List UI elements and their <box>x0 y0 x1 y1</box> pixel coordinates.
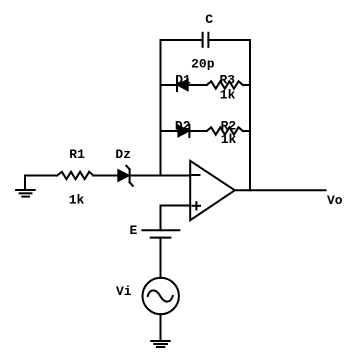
svg-text:1k: 1k <box>69 192 85 207</box>
wire top row left of capacitor <box>161 39 203 41</box>
diode D1 <box>175 72 191 91</box>
ground (bottom, under Vi) <box>151 341 170 347</box>
diode D2 <box>175 118 191 137</box>
battery E <box>129 223 179 238</box>
wire R2 to right vertical <box>243 130 250 132</box>
wire plus input down to battery <box>160 206 162 231</box>
svg-text:E: E <box>129 223 137 238</box>
ground (left, input ground) <box>16 176 35 197</box>
wire Dz to op-amp inverting input (node at x=160.5) <box>130 175 191 177</box>
wire left feedback vertical <box>160 40 162 176</box>
svg-text:Vi: Vi <box>116 284 132 299</box>
wire D1 to R3 <box>188 84 207 86</box>
wire D1 row left <box>161 84 178 86</box>
zener diode Dz <box>115 147 132 186</box>
source Vi <box>116 278 179 314</box>
node Vo <box>327 193 343 208</box>
wire top row right of capacitor <box>208 39 250 41</box>
svg-text:C: C <box>205 12 213 27</box>
svg-text:1k: 1k <box>221 132 237 147</box>
resistor R3 <box>207 73 243 103</box>
op-amp U1 <box>190 161 235 220</box>
wire R3 to right vertical <box>243 84 250 86</box>
wire D2 row left <box>161 130 178 132</box>
svg-text:R1: R1 <box>69 147 85 162</box>
wire ground to R1 <box>25 175 57 177</box>
resistor R2 <box>207 119 243 148</box>
svg-text:Dz: Dz <box>115 147 131 162</box>
capacitor C <box>191 12 215 71</box>
wire right feedback vertical <box>249 40 251 190</box>
wire Vi to ground <box>160 314 162 341</box>
wire R1 to Dz <box>93 175 117 177</box>
wire op-amp noninverting input <box>161 205 191 207</box>
resistor R1 <box>57 147 93 208</box>
wire D2 to R2 <box>189 130 206 132</box>
svg-text:Vo: Vo <box>327 193 343 208</box>
svg-text:1k: 1k <box>220 87 236 102</box>
svg-text:20p: 20p <box>191 57 215 72</box>
wire battery to Vi source <box>160 238 162 278</box>
wire op-amp output <box>235 189 326 191</box>
